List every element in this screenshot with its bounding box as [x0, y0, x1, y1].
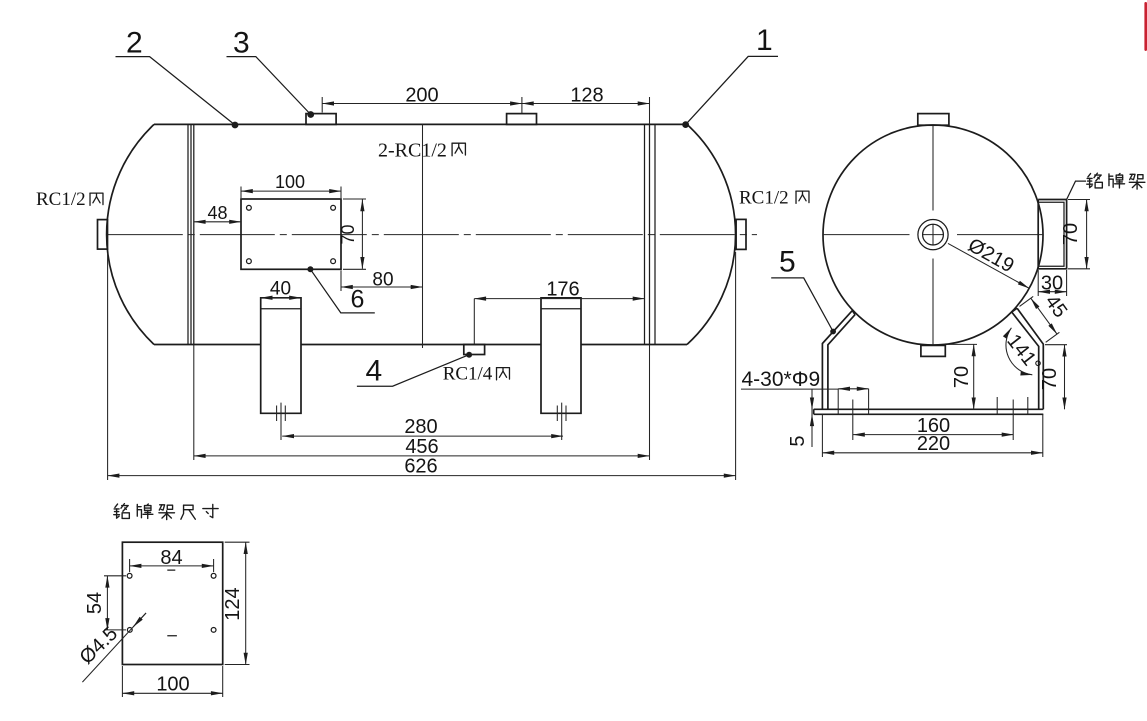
dimension 48	[194, 221, 241, 223]
dimension 456	[194, 345, 650, 461]
left weld seam lines	[188, 124, 194, 344]
dimension 54	[104, 576, 126, 630]
tank shell top line	[154, 123, 687, 125]
tank shell bottom line (interrupted by legs)	[154, 344, 687, 346]
dimension 5 (plate thickness)	[811, 390, 813, 448]
left foot slot	[838, 389, 868, 440]
front left leg	[261, 298, 301, 414]
item leader 6	[307, 266, 313, 272]
dimension Ø219 leader	[948, 243, 1029, 288]
dimension 40 (leg width)	[261, 297, 301, 299]
dimension 141 degrees arc	[1006, 328, 1032, 375]
side vertical centerline	[932, 125, 934, 345]
dimension 30 (holder depth)	[1038, 270, 1066, 296]
svg-text:70: 70	[338, 224, 358, 244]
svg-text:2-RC1/2: 2-RC1/2	[378, 140, 447, 162]
dimension 70 (right leg)	[1045, 344, 1067, 346]
base plate	[814, 409, 1044, 414]
front right leg	[541, 298, 581, 414]
dimension 220	[822, 414, 1042, 457]
bottom nozzle 4	[464, 345, 485, 355]
svg-text:70: 70	[1060, 223, 1082, 245]
svg-text:3: 3	[233, 27, 250, 60]
item leader 2	[232, 122, 239, 129]
item leader 5	[830, 329, 836, 335]
svg-text:70: 70	[1039, 368, 1061, 390]
dimension 100 (nameplate)	[241, 187, 341, 199]
title 铭牌架尺寸	[114, 504, 130, 519]
side left leg	[822, 311, 855, 410]
svg-text:626: 626	[404, 456, 437, 478]
side top nozzle	[918, 114, 949, 126]
dimension 160	[853, 434, 1014, 436]
dimension 200	[322, 97, 522, 113]
label 铭牌架 with leader	[1067, 181, 1086, 199]
dimension 100	[122, 666, 222, 697]
dimension 80	[340, 271, 342, 292]
tank left dished head	[107, 124, 154, 344]
item leader 3	[307, 111, 314, 118]
tank vertical mid line	[422, 124, 424, 348]
left nozzle RC1/2	[98, 220, 108, 250]
svg-text:48: 48	[207, 203, 227, 223]
right leg slot marks	[557, 403, 566, 440]
side horizontal centerline	[823, 234, 1043, 236]
side right leg	[1012, 308, 1044, 409]
dimension 280	[282, 435, 563, 437]
left leg slot marks	[277, 403, 286, 440]
dimension 70 (nameplate)	[343, 199, 366, 269]
dimension 124	[225, 542, 250, 664]
side bottom nozzle	[921, 345, 945, 356]
svg-text:5: 5	[779, 246, 796, 279]
shell circle	[823, 125, 1043, 345]
svg-text:6: 6	[351, 286, 365, 314]
svg-text:70: 70	[951, 366, 973, 388]
svg-text:124: 124	[222, 587, 244, 620]
svg-text:RC1/2: RC1/2	[36, 189, 86, 210]
svg-text:100: 100	[275, 172, 305, 192]
plate holes	[127, 573, 132, 578]
svg-text:40: 40	[270, 279, 291, 300]
right foot slot	[997, 397, 1028, 440]
svg-text:176: 176	[546, 279, 579, 301]
svg-text:128: 128	[570, 85, 603, 107]
svg-text:Ø219: Ø219	[964, 234, 1017, 277]
svg-text:84: 84	[160, 547, 182, 569]
dimension Ø4.5 leader	[82, 613, 146, 682]
nameplate holder bracket	[1038, 200, 1066, 269]
dimension 176	[473, 299, 475, 344]
dimension 128	[649, 97, 651, 124]
svg-text:80: 80	[372, 270, 393, 291]
dimension 70 (left, under circle)	[947, 343, 977, 345]
dimension 70 (holder height)	[1068, 200, 1090, 269]
red edge mark	[1144, 2, 1147, 51]
svg-text:1: 1	[756, 24, 773, 57]
nameplate holes	[247, 205, 252, 210]
item leader 1	[682, 121, 689, 128]
svg-text:2: 2	[126, 27, 143, 60]
svg-text:4: 4	[366, 355, 383, 388]
center fitting circles	[923, 224, 944, 245]
top nozzle (right)	[507, 114, 537, 125]
nameplate plate outline	[122, 542, 222, 664]
svg-text:220: 220	[917, 433, 950, 455]
slot 30 dim arrows	[838, 388, 868, 390]
tank horizontal centerline	[108, 234, 757, 236]
tank right dished head	[687, 124, 736, 344]
svg-text:54: 54	[84, 592, 106, 614]
svg-text:100: 100	[156, 674, 189, 696]
svg-text:RC1/2: RC1/2	[739, 188, 789, 209]
nameplate rectangle on shell	[241, 199, 341, 269]
svg-text:30: 30	[1041, 273, 1063, 295]
svg-text:200: 200	[405, 85, 438, 107]
svg-text:4-30*Φ9: 4-30*Φ9	[742, 368, 821, 391]
dimension 84	[130, 559, 214, 572]
top nozzle 3 (left)	[306, 114, 336, 125]
dimension 626	[108, 252, 736, 480]
right nozzle RC1/2	[736, 219, 746, 249]
right weld seam lines	[645, 124, 656, 344]
center dashes	[167, 570, 177, 636]
svg-text:RC1/4: RC1/4	[443, 364, 493, 385]
svg-text:5: 5	[787, 435, 809, 446]
svg-text:280: 280	[404, 416, 437, 438]
dimension 45 (leg flat)	[1020, 296, 1060, 342]
item leader 4 with RC1/4内	[466, 352, 472, 358]
